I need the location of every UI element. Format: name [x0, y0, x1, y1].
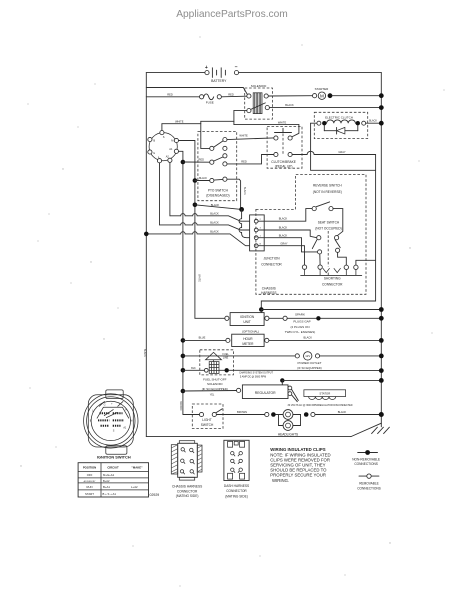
ground (chassis) [372, 427, 390, 433]
wire light switch to headlights (brown) [216, 414, 264, 416]
wire junction pinB gray to shorting connector [258, 246, 304, 265]
svg-text:FUEL: FUEL [223, 353, 230, 356]
svg-text:M+G+A1: M+G+A1 [103, 473, 115, 477]
svg-text:BLACK: BLACK [210, 211, 219, 215]
wire PTO white output to clutch/brake switch [227, 138, 274, 140]
svg-text:B: B [153, 139, 155, 143]
svg-text:ELECTRIC CLUTCH: ELECTRIC CLUTCH [325, 115, 353, 119]
svg-text:IGNITION SWITCH: IGNITION SWITCH [97, 455, 131, 460]
diode D1 (across clutch coil) [324, 125, 358, 134]
wire fuel solenoid to bus [219, 369, 225, 371]
svg-text:(NOT IN REVERSE): (NOT IN REVERSE) [313, 190, 342, 194]
dash harness connector (mating side) [224, 440, 249, 498]
svg-text:NON-REMOVABLE: NON-REMOVABLE [352, 457, 380, 461]
wire key M to PTO/ignition vertical [179, 141, 195, 319]
power outlet 12V [295, 352, 322, 370]
svg-text:STARTER: STARTER [315, 87, 330, 91]
svg-text:(OPTIONAL): (OPTIONAL) [242, 329, 259, 333]
svg-text:CONNECTOR: CONNECTOR [261, 263, 282, 267]
wire light switch feed [183, 414, 200, 416]
svg-text:BLACK: BLACK [210, 220, 219, 224]
shorting connector [301, 265, 362, 287]
solenoid (starter solenoid) [245, 84, 273, 119]
wire fuse feed row [146, 96, 199, 98]
svg-text:BLUE: BLUE [199, 336, 206, 340]
legend non-removable connection [352, 450, 380, 466]
chassis harness dashed outline [256, 175, 366, 295]
svg-text:A2: A2 [166, 154, 170, 158]
wire junction pin2 to reverse switch [258, 209, 312, 222]
node A1 tap to PTO red row [181, 160, 186, 165]
wire junction row to bus [261, 309, 381, 311]
ignition unit [225, 313, 269, 326]
svg-text:RED: RED [241, 159, 247, 163]
svg-text:JUNCTION: JUNCTION [263, 256, 280, 260]
svg-text:RUN: RUN [86, 485, 92, 489]
svg-text:CONNECTIONS: CONNECTIONS [354, 462, 378, 466]
svg-text:B + S + A1: B + S + A1 [103, 492, 117, 496]
svg-text:WHITE: WHITE [278, 120, 287, 124]
wire reverse switch to seat switch [333, 209, 343, 236]
wire power outlet row [181, 354, 186, 359]
svg-text:REGULATOR: REGULATOR [255, 391, 276, 395]
svg-text:CONNECTOR: CONNECTOR [226, 489, 247, 493]
svg-text:5 AMP DC @ 3600 RPM: 5 AMP DC @ 3600 RPM [240, 375, 266, 378]
wire gray loop to shorting pin 4 [356, 260, 376, 265]
svg-text:S: S [163, 135, 165, 139]
spark plug lead [269, 312, 384, 334]
reverse switch (not in reverse) [312, 184, 342, 211]
svg-text:SOLENOID: SOLENOID [251, 84, 267, 88]
svg-text:BLACK: BLACK [143, 349, 146, 357]
wire fuel solenoid feed [181, 368, 186, 373]
fuel shut-off solenoid [200, 350, 234, 391]
svg-text:SHORTING: SHORTING [324, 276, 341, 280]
svg-text:L+A2: L+A2 [131, 485, 138, 489]
svg-text:SPARK: SPARK [295, 312, 305, 316]
wire key A2 vertical [169, 162, 171, 215]
svg-text:AppliancePartsPros.com: AppliancePartsPros.com [176, 9, 288, 20]
svg-text:BLACK: BLACK [279, 217, 288, 221]
wire battery to solenoid [146, 88, 247, 95]
svg-text:METER: METER [242, 342, 254, 346]
svg-text:B+A1: B+A1 [103, 485, 110, 489]
svg-text:(IF SO EQUIPPED): (IF SO EQUIPPED) [297, 366, 321, 370]
svg-text:M: M [171, 139, 173, 143]
svg-text:OFF: OFF [87, 473, 93, 477]
svg-text:RED: RED [228, 93, 234, 97]
node PTO return joins row A [239, 207, 244, 212]
svg-text:SWITCH: SWITCH [201, 423, 214, 427]
wire clutch to bus [366, 122, 382, 124]
wire solenoid branch to clutch/brake switch [234, 120, 299, 136]
wire battery negative to right bus [239, 72, 382, 74]
svg-text:(MATING SIDE): (MATING SIDE) [176, 494, 199, 498]
svg-text:30 VOLTS AC @ 3600 RPM/REGULAT: 30 VOLTS AC @ 3600 RPM/REGULATOR DISCONN… [288, 404, 353, 407]
svg-text:REVERSE SWITCH: REVERSE SWITCH [313, 184, 342, 188]
wire power outlet to bus [320, 355, 382, 357]
seat switch (not occupied) [312, 220, 341, 266]
stator [304, 390, 346, 400]
svg-text:BLACK: BLACK [211, 203, 220, 207]
wire seat switch to shorting pins [319, 254, 321, 265]
wire starter to bus [332, 95, 381, 97]
ignition switch table [78, 463, 148, 497]
wire row C (key L to junction pin 3) [160, 223, 255, 230]
wire row A (key M to junction pin 1) [193, 203, 198, 208]
svg-text:FUSE: FUSE [206, 101, 214, 105]
svg-text:BLACK: BLACK [285, 103, 294, 107]
svg-text:(NOT OCCUPIED): (NOT OCCUPIED) [315, 227, 342, 231]
svg-text:BLK: BLK [191, 367, 196, 370]
wire solenoid coil terminal left [234, 110, 247, 112]
svg-text:STATOR: STATOR [319, 392, 330, 396]
svg-text:HARNESS: HARNESS [261, 291, 276, 295]
ignition key switch (schematic ring) [148, 131, 179, 163]
wire diagonal ground riser [351, 423, 381, 436]
svg-text:BLACK: BLACK [303, 336, 312, 340]
svg-text:−: − [235, 65, 238, 71]
svg-text:BROWN: BROWN [237, 410, 247, 414]
svg-text:G: G [153, 151, 155, 155]
node M tap to PTO black row [193, 178, 198, 183]
svg-text:(PEDAL UP): (PEDAL UP) [275, 165, 293, 169]
svg-text:BLACK: BLACK [279, 233, 288, 237]
svg-text:BLACK: BLACK [243, 187, 246, 195]
svg-text:SEAT SWITCH: SEAT SWITCH [318, 220, 340, 224]
chassis harness connector (mating side) [171, 441, 202, 499]
svg-text:DASH HARNESS: DASH HARNESS [224, 484, 249, 488]
svg-text:LINE: LINE [223, 357, 229, 360]
junction connector J1 [250, 215, 283, 267]
svg-text:IGNITION: IGNITION [240, 315, 255, 319]
ignition switch physical drawing [84, 390, 138, 454]
wire key S to solenoid branch [162, 111, 234, 149]
fuse F1 [200, 94, 222, 105]
svg-text:FUEL SHUT-OFF: FUEL SHUT-OFF [203, 377, 227, 381]
wire PTO black output drop [227, 179, 241, 209]
wire row B (key A2 to junction pin 2) [170, 214, 254, 222]
svg-text:02929: 02929 [150, 493, 160, 497]
svg-text:M: M [130, 420, 132, 423]
svg-text:BLACK: BLACK [369, 120, 377, 123]
svg-text:CLUTCH/BRAKE: CLUTCH/BRAKE [271, 160, 296, 164]
wire fuse to solenoid [221, 95, 246, 98]
wire left feed vertical (battery to key B and ground) [145, 73, 147, 437]
svg-text:BLACK: BLACK [338, 410, 347, 414]
wire solenoid to starter [268, 95, 312, 97]
svg-text:A1: A1 [169, 147, 173, 151]
svg-text:G: G [104, 403, 106, 406]
legend removable connection [357, 474, 381, 491]
svg-text:+: + [205, 65, 208, 71]
svg-text:RED: RED [167, 92, 173, 96]
PTO switch (disengaged) [198, 132, 237, 201]
light switch [192, 404, 223, 428]
svg-text:HEADLIGHTS: HEADLIGHTS [278, 433, 298, 437]
svg-text:SOLENOID: SOLENOID [207, 382, 223, 386]
regulator [237, 378, 384, 402]
svg-text:CHARGING SYSTEM OUTPUT: CHARGING SYSTEM OUTPUT [239, 372, 273, 375]
wire right bus vertical [380, 73, 382, 427]
svg-text:ACCESSORY: ACCESSORY [84, 480, 97, 483]
svg-text:BLACK: BLACK [279, 226, 288, 230]
svg-text:REMOVABLE: REMOVABLE [359, 482, 379, 486]
svg-text:WHITE: WHITE [197, 274, 200, 282]
svg-text:BLACK: BLACK [199, 177, 207, 180]
svg-text:(2 PLUGS ON: (2 PLUGS ON [290, 325, 309, 329]
wiring insulated clips note [270, 447, 330, 483]
wire ignition unit feed from key M line [195, 317, 225, 319]
svg-text:WHITE: WHITE [239, 133, 248, 137]
clutch/brake switch (pedal up) [267, 127, 302, 169]
svg-text:POSITION: POSITION [83, 466, 96, 470]
wire hour meter left (blue) [181, 338, 186, 343]
svg-text:RED: RED [199, 157, 205, 161]
svg-text:PTO SWITCH: PTO SWITCH [208, 188, 229, 192]
svg-text:(MATING SIDE): (MATING SIDE) [225, 494, 248, 498]
svg-text:TWIN CYL. ENGINES): TWIN CYL. ENGINES) [285, 330, 316, 334]
svg-text:GRAY: GRAY [280, 241, 287, 245]
wire junction pin1 to seat switch lower [258, 238, 317, 252]
node ignition unit top junction [259, 307, 264, 312]
wire solenoid output to right bus (black) [269, 107, 381, 109]
wire key A1 vertical [179, 151, 183, 414]
svg-text:(DISENGAGED): (DISENGAGED) [206, 194, 229, 198]
wire schematic bottom ground line [146, 436, 351, 438]
svg-text:B+A2: B+A2 [103, 479, 110, 483]
battery [146, 65, 238, 84]
svg-text:12V: 12V [305, 354, 310, 358]
svg-text:BROWN: BROWN [179, 401, 182, 410]
hour meter (optional) [226, 329, 269, 346]
svg-text:CHASSIS HARNESS: CHASSIS HARNESS [172, 485, 202, 489]
wire row A drop into junction pin 1 [239, 209, 254, 237]
svg-text:UNIT: UNIT [243, 320, 250, 324]
svg-text:CONNECTIONS: CONNECTIONS [357, 486, 381, 490]
svg-text:CIRCUIT: CIRCUIT [107, 466, 119, 470]
wire PTO red output to clutch/brake switch [227, 155, 274, 164]
svg-text:START: START [85, 492, 94, 496]
svg-text:LIGHT: LIGHT [202, 418, 211, 422]
electric clutch [311, 112, 368, 138]
svg-text:M: M [320, 93, 324, 98]
wire junction pin3 to seat switch [258, 230, 317, 238]
svg-text:GRAY: GRAY [338, 150, 345, 154]
svg-text:BATTERY: BATTERY [211, 79, 227, 83]
svg-text:"MAKE": "MAKE" [132, 466, 144, 470]
wire electric clutch ground drop [311, 123, 376, 170]
svg-text:CHASSIS: CHASSIS [262, 286, 276, 290]
svg-text:YEL: YEL [210, 393, 215, 396]
wire hour meter right (black) to bus [269, 339, 381, 341]
svg-text:WHITE: WHITE [175, 119, 184, 123]
wire regulator feed from A1 line [181, 389, 186, 394]
svg-text:CONNECTOR: CONNECTOR [177, 489, 198, 493]
svg-text:HOUR: HOUR [243, 337, 253, 341]
svg-text:BLACK: BLACK [210, 229, 219, 233]
headlights [276, 410, 301, 437]
wire clutch/brake gray output to right loop [261, 151, 375, 309]
wire key L vertical [159, 163, 161, 225]
wire headlights to bus [315, 414, 381, 416]
wire row D (ground feed to junction pin B) [146, 232, 254, 246]
starter motor M [313, 87, 333, 100]
svg-text:POWER OUTLET: POWER OUTLET [297, 361, 321, 365]
svg-text:CONNECTOR: CONNECTOR [322, 283, 343, 287]
svg-text:PLUGS GAP: PLUGS GAP [293, 319, 310, 323]
svg-text:WIRING.: WIRING. [272, 478, 289, 483]
